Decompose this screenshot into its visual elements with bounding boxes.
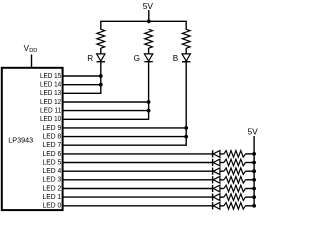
wire <box>220 205 224 207</box>
wire B cathode down to LED7 <box>185 62 187 146</box>
wire pin LED15 <box>62 75 100 77</box>
svg-text:LP3943: LP3943 <box>8 136 33 145</box>
wire pin LED13 <box>62 92 100 94</box>
svg-text:DD: DD <box>29 48 37 54</box>
wire <box>245 170 254 172</box>
svg-text:LED 15: LED 15 <box>40 73 61 80</box>
svg-text:LED 0: LED 0 <box>43 203 62 210</box>
wire pin LED0 <box>62 205 212 207</box>
svg-text:LED 10: LED 10 <box>40 116 61 123</box>
wire <box>220 153 224 155</box>
resistor R4 <box>224 168 246 175</box>
svg-text:LED 4: LED 4 <box>43 168 62 175</box>
junction R-LED14 <box>99 83 103 87</box>
resistor R1 <box>224 194 246 201</box>
LED R diode <box>97 54 105 61</box>
svg-text:LED 3: LED 3 <box>43 177 62 184</box>
wire <box>220 188 224 190</box>
IC U1 LP3943 box <box>2 68 63 210</box>
svg-text:LED 5: LED 5 <box>43 159 62 166</box>
junction 5V rail <box>147 19 151 23</box>
wire pin LED9 <box>62 127 186 129</box>
wire <box>245 188 254 190</box>
junction G-LED11 <box>147 109 151 113</box>
resistor R5 <box>224 159 246 166</box>
svg-text:LED 7: LED 7 <box>43 142 62 149</box>
wire R cathode down to LED13 <box>100 62 102 94</box>
junction rail LED3 <box>252 178 256 182</box>
junction B-LED8 <box>184 135 188 139</box>
wire <box>185 48 187 54</box>
junction rail LED4 <box>252 169 256 173</box>
wire pin LED11 <box>62 110 148 112</box>
svg-text:LED 1: LED 1 <box>43 194 62 201</box>
LED D2 <box>212 185 214 192</box>
wire pin LED7 <box>62 144 186 146</box>
LED D6 <box>212 150 214 157</box>
wire pin LED10 <box>62 118 148 120</box>
wire pin LED4 <box>62 170 212 172</box>
wire pin LED8 <box>62 136 186 138</box>
wire <box>245 205 254 207</box>
wire pin LED3 <box>62 179 212 181</box>
LED D1 <box>212 194 214 201</box>
LED D3 <box>212 176 214 183</box>
wire <box>148 48 150 54</box>
svg-text:R: R <box>87 54 93 63</box>
resistor (G branch) <box>145 29 153 48</box>
LED G diode <box>144 54 152 61</box>
junction rail LED1 <box>252 195 256 199</box>
LED D5 <box>212 159 214 166</box>
junction rail LED5 <box>252 161 256 165</box>
wire pin LED6 <box>62 153 212 155</box>
wire <box>245 179 254 181</box>
svg-text:B: B <box>173 54 179 63</box>
junction B-LED9 <box>184 126 188 130</box>
wire <box>220 170 224 172</box>
wire pin LED14 <box>62 84 100 86</box>
resistor (B branch) <box>182 29 190 48</box>
wire G cathode down to LED10 <box>148 62 150 120</box>
wire <box>220 196 224 198</box>
wire pin LED1 <box>62 196 212 198</box>
svg-text:G: G <box>134 54 140 63</box>
wire VDD to IC <box>31 55 33 68</box>
resistor R0 <box>224 203 246 210</box>
resistor (R branch) <box>97 29 105 48</box>
svg-text:LED 14: LED 14 <box>40 82 61 89</box>
svg-text:5V: 5V <box>143 1 154 11</box>
resistor R2 <box>224 185 246 192</box>
junction rail LED6 <box>252 152 256 156</box>
wire 5V feed <box>148 10 150 21</box>
svg-text:LED 9: LED 9 <box>43 125 62 132</box>
LED D0 <box>212 202 214 209</box>
svg-text:LED 8: LED 8 <box>43 134 62 141</box>
wire <box>245 153 254 155</box>
wire <box>220 179 224 181</box>
wire right 5V rail <box>253 136 255 206</box>
LED B diode <box>182 54 190 61</box>
resistor R6 <box>224 151 246 158</box>
junction R-LED15 <box>99 74 103 78</box>
wire <box>245 162 254 164</box>
wire <box>100 48 102 54</box>
svg-text:LED 11: LED 11 <box>40 108 61 115</box>
svg-text:LED 13: LED 13 <box>40 90 61 97</box>
wire <box>245 196 254 198</box>
svg-text:LED 6: LED 6 <box>43 151 62 158</box>
wire <box>220 162 224 164</box>
wire pin LED12 <box>62 101 148 103</box>
wire pin LED5 <box>62 162 212 164</box>
junction rail LED0 <box>252 204 256 208</box>
junction rail LED2 <box>252 187 256 191</box>
junction G-LED12 <box>147 100 151 104</box>
svg-text:5V: 5V <box>247 127 258 137</box>
svg-text:LED 12: LED 12 <box>40 99 61 106</box>
LED D4 <box>212 168 214 175</box>
svg-text:LED 2: LED 2 <box>43 185 62 192</box>
wire top rail <box>101 21 186 29</box>
wire pin LED2 <box>62 188 212 190</box>
resistor R3 <box>224 177 246 184</box>
